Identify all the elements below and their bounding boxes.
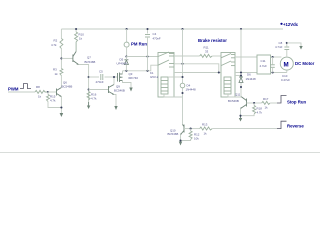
svg-text:BC546B: BC546B xyxy=(228,99,239,103)
svg-text:33: 33 xyxy=(205,50,209,54)
resistor R18 xyxy=(239,103,262,117)
wire left branch vertical xyxy=(60,29,62,88)
svg-text:PM Run: PM Run xyxy=(131,41,147,46)
resistor R3 xyxy=(53,68,63,77)
node supply xyxy=(286,42,288,44)
svg-text:R3: R3 xyxy=(53,68,57,72)
transistor Q6 xyxy=(57,81,73,97)
wire gate row xyxy=(89,76,118,78)
wire brake row xyxy=(174,55,221,57)
relay K2 xyxy=(221,53,235,98)
wire mid row xyxy=(174,64,219,73)
svg-text:BC546B: BC546B xyxy=(85,60,96,64)
transistor Q9 xyxy=(109,85,125,95)
diode D4 xyxy=(180,83,196,91)
wire motor top row xyxy=(235,56,257,58)
diode D6 xyxy=(239,73,256,83)
svg-text:M: M xyxy=(284,61,289,68)
wire Q9 collector xyxy=(113,77,115,85)
wire Q11 base xyxy=(247,102,262,104)
relay K1 xyxy=(158,52,174,97)
wire junction to Q6 base xyxy=(48,91,57,93)
wire bottom border line xyxy=(0,152,320,154)
svg-text:BC546B: BC546B xyxy=(114,89,125,93)
svg-text:C4: C4 xyxy=(153,32,157,36)
svg-text:DC Motor: DC Motor xyxy=(295,61,315,66)
node drain D5 xyxy=(125,70,127,72)
svg-text:C11: C11 xyxy=(261,59,266,63)
wire Q6 collector xyxy=(60,87,62,90)
node K1 LED branch xyxy=(181,63,183,65)
svg-text:PWM: PWM xyxy=(8,87,19,92)
ground Q10 emitter xyxy=(179,135,182,146)
label Brake resistor xyxy=(198,38,227,43)
node R12 xyxy=(190,128,192,130)
wire base row xyxy=(89,89,109,91)
resistor R16 xyxy=(87,92,97,101)
svg-text:4.7nF: 4.7nF xyxy=(275,45,283,49)
resistor R2 xyxy=(51,39,63,49)
transistor Q3 MOSFET xyxy=(118,72,139,82)
svg-text:R13: R13 xyxy=(202,123,208,127)
resistor R10 xyxy=(75,29,85,52)
svg-text:470nF: 470nF xyxy=(153,37,161,41)
wire to Stop Run switch xyxy=(270,102,277,104)
label K1 xyxy=(150,71,159,79)
transistor Q10 xyxy=(168,125,185,136)
resistor R17 xyxy=(262,97,270,110)
svg-text:Reverse: Reverse xyxy=(287,124,304,129)
pin PM Run xyxy=(124,28,147,57)
node D6 bottom xyxy=(240,86,242,88)
node D5 top xyxy=(125,55,127,57)
wire mid row lower xyxy=(174,71,221,73)
ground Q9 emitter xyxy=(114,95,118,111)
resistor R15 xyxy=(47,92,62,108)
svg-text:4.7k: 4.7k xyxy=(257,111,263,115)
wire Q11 emitter xyxy=(240,109,242,116)
svg-text:Stop Run: Stop Run xyxy=(287,100,306,105)
diode D5 xyxy=(117,57,129,71)
label DC Motor xyxy=(295,61,315,66)
resistor R12 xyxy=(179,129,199,142)
switch Reverse xyxy=(277,121,287,128)
svg-text:4.7uF: 4.7uF xyxy=(260,64,268,68)
resistor R11 xyxy=(200,46,213,58)
wire PWM input xyxy=(8,91,35,93)
wire K2 coil bottom xyxy=(228,94,241,97)
svg-text:R2: R2 xyxy=(54,39,58,43)
pulse icon PWM input xyxy=(20,84,31,89)
wire Q7 emitter run xyxy=(79,65,89,103)
svg-text:BC546B: BC546B xyxy=(168,132,179,136)
wire Q11 collector xyxy=(240,96,242,99)
svg-text:+12Vdc: +12Vdc xyxy=(283,22,299,27)
label PWM xyxy=(8,87,19,92)
ground Q11 emitter xyxy=(239,116,242,122)
label Stop Run xyxy=(287,100,306,105)
node gate row junction xyxy=(88,76,90,78)
wire top +12V rail xyxy=(61,28,283,30)
wire D5 node to relay K1 xyxy=(126,55,158,57)
svg-text:R8: R8 xyxy=(36,85,40,89)
node R18 xyxy=(253,102,255,104)
svg-text:Q11: Q11 xyxy=(235,93,241,97)
capacitor C8 xyxy=(275,41,289,57)
svg-text:10k: 10k xyxy=(194,137,199,141)
resistor R8 xyxy=(35,85,48,99)
ground R16 xyxy=(87,102,90,109)
motor M1 xyxy=(280,57,293,70)
svg-text:1N4448: 1N4448 xyxy=(246,77,257,81)
wire motor bottom stub xyxy=(286,71,288,73)
wire box to motor bottom xyxy=(271,72,287,74)
node LED top xyxy=(181,76,183,78)
ground Q6 emitter xyxy=(60,97,64,118)
wire drain row xyxy=(123,65,159,71)
resistor R13 xyxy=(200,123,213,136)
wire K1 coil top xyxy=(168,76,183,78)
svg-text:4.7k: 4.7k xyxy=(51,43,57,47)
svg-text:Brake resistor: Brake resistor xyxy=(198,38,227,43)
node +12Vdc xyxy=(280,23,282,25)
wire Q3 source to ground xyxy=(123,81,132,85)
switch Stop Run xyxy=(277,96,287,104)
capacitor C10 xyxy=(270,57,290,82)
label +12Vdc xyxy=(283,22,299,27)
svg-text:IRF740: IRF740 xyxy=(129,76,139,80)
power +12V arrow xyxy=(287,43,303,50)
wire motor bottom row xyxy=(235,72,257,74)
svg-text:1N4448: 1N4448 xyxy=(186,88,197,92)
node C10 bottom xyxy=(272,71,274,73)
wire to Q7 base xyxy=(61,57,73,59)
svg-text:0.47uF: 0.47uF xyxy=(281,78,290,82)
node base row junction xyxy=(88,88,90,90)
node K2 flyback top xyxy=(240,71,242,73)
node PWM base junction xyxy=(47,91,49,93)
label Reverse xyxy=(287,124,304,129)
node LED bottom xyxy=(181,92,183,94)
node drain C4 xyxy=(146,70,148,72)
node D6 top xyxy=(240,74,242,76)
svg-text:G5V-2: G5V-2 xyxy=(150,75,159,79)
svg-text:4.7k: 4.7k xyxy=(91,97,97,101)
svg-text:D6: D6 xyxy=(247,73,251,77)
wire box to motor top xyxy=(271,56,282,58)
wire Q10 base xyxy=(184,128,200,130)
svg-text:R17: R17 xyxy=(263,97,269,101)
svg-text:BC546B: BC546B xyxy=(62,85,73,89)
capacitor C5 xyxy=(96,70,104,85)
node gate junction xyxy=(113,76,115,78)
capacitor C4 xyxy=(145,29,161,71)
transistor Q7 xyxy=(73,52,95,65)
wire reverse row xyxy=(212,128,277,130)
component box C11 xyxy=(257,55,271,74)
wire K2 flyback branch xyxy=(240,28,242,97)
wire LED branch xyxy=(181,28,183,125)
node C10 top xyxy=(272,56,274,58)
wire K1 coil bottom xyxy=(164,94,183,97)
svg-text:UF4004: UF4004 xyxy=(117,62,128,66)
svg-text:470nF: 470nF xyxy=(96,80,104,84)
transistor Q11 xyxy=(228,93,247,109)
svg-text:Q7: Q7 xyxy=(87,56,91,60)
wire K2 coil top xyxy=(235,75,241,77)
svg-text:4.7k: 4.7k xyxy=(50,99,56,103)
wire Q3 drain xyxy=(122,71,124,74)
node R10 rail xyxy=(75,28,77,30)
node Q7 base junction xyxy=(60,57,62,59)
ground Q3 source xyxy=(129,84,132,92)
node C4 rail xyxy=(146,28,148,30)
svg-text:C5: C5 xyxy=(99,70,103,74)
